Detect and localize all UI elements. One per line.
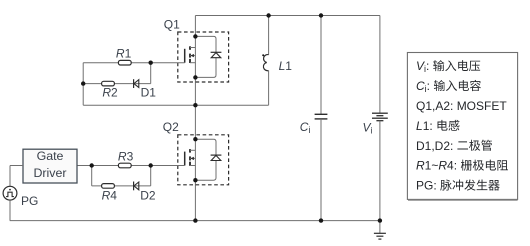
svg-text:Q1: Q1 xyxy=(164,18,180,32)
svg-text:Ci:: Ci: xyxy=(416,79,430,94)
svg-text:R3: R3 xyxy=(118,149,134,163)
svg-text:R2: R2 xyxy=(102,86,118,100)
svg-text:L1:: L1: xyxy=(416,119,433,133)
svg-text:R1~R4:: R1~R4: xyxy=(416,159,457,173)
svg-text:Driver: Driver xyxy=(33,166,66,180)
svg-text:PG:: PG: xyxy=(416,179,437,193)
svg-text:Q1,A2: MOSFET: Q1,A2: MOSFET xyxy=(416,99,507,113)
svg-text:D1,D2:: D1,D2: xyxy=(416,139,453,153)
svg-text:Gate: Gate xyxy=(37,149,64,163)
svg-text:Vi:: Vi: xyxy=(416,59,429,74)
svg-text:R1: R1 xyxy=(116,47,132,61)
svg-text:R4: R4 xyxy=(102,189,118,203)
svg-text:D1: D1 xyxy=(141,86,157,100)
svg-text:Q2: Q2 xyxy=(163,120,179,134)
svg-text:D2: D2 xyxy=(140,189,156,203)
svg-text:PG: PG xyxy=(21,194,38,208)
svg-text:L1: L1 xyxy=(279,59,293,73)
